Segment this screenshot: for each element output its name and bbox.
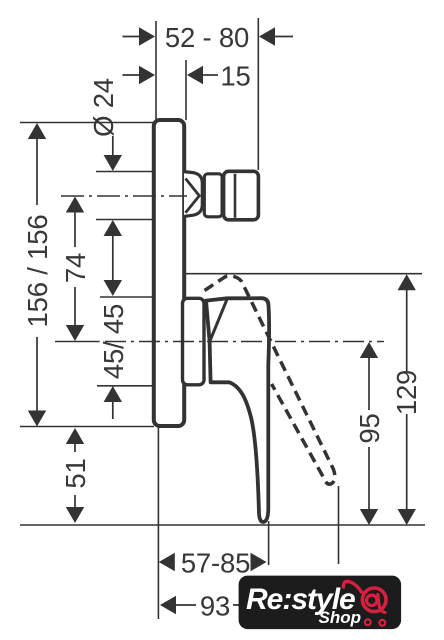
svg-text:Shop: Shop xyxy=(319,608,362,627)
dashed lever rotated position xyxy=(205,276,335,484)
dimension 95 xyxy=(354,342,385,525)
Re:style Shop logo xyxy=(239,576,402,630)
dimension Ø24 xyxy=(88,78,122,280)
cart wheel right xyxy=(379,620,385,626)
svg-text:52 - 80: 52 - 80 xyxy=(165,22,249,53)
@ outer ring xyxy=(362,588,386,612)
svg-text:93: 93 xyxy=(200,591,230,622)
cart wheel left xyxy=(365,619,371,625)
svg-text:57-85: 57-85 xyxy=(181,548,250,579)
bottom reference line y525 xyxy=(20,524,425,526)
extension line plate bottom y426.5 xyxy=(20,426,154,428)
spigot collar xyxy=(204,174,222,217)
dimension 15 xyxy=(123,61,251,92)
dimension 57-85 xyxy=(159,548,267,579)
centerline spigot axis y196 xyxy=(61,195,187,197)
dimension 93 xyxy=(160,591,330,622)
dimension 52-80 top xyxy=(123,22,294,53)
svg-text:129: 129 xyxy=(391,370,422,415)
extension line plate top y122.5 xyxy=(20,122,153,124)
centerline valve axis y341 xyxy=(55,341,100,343)
dimension 45/45 xyxy=(98,280,129,419)
spigot cone chevron xyxy=(186,179,200,213)
extension line nut bottom y219.5 xyxy=(96,219,153,221)
svg-text:Ø 24: Ø 24 xyxy=(88,78,119,137)
dimension 74 xyxy=(60,197,91,342)
@ inner a xyxy=(367,595,377,605)
svg-text:51: 51 xyxy=(60,458,91,488)
extension line x258 (nut face) xyxy=(257,18,259,170)
extension line lever tip x268.6 xyxy=(268,521,270,565)
extension line sleeve top y297 xyxy=(100,296,154,298)
dimension 156/156 xyxy=(22,123,53,427)
valve sleeve xyxy=(183,298,205,385)
svg-text:156 / 156: 156 / 156 xyxy=(22,215,53,328)
extension line x186 (plate front face) xyxy=(185,60,187,120)
svg-text:15: 15 xyxy=(220,61,250,92)
extension line nut top y171.5 xyxy=(96,171,153,173)
spigot nut xyxy=(224,171,259,220)
cart handle xyxy=(343,581,361,592)
handle face edge line xyxy=(210,299,228,342)
handle lever (rest position) xyxy=(206,298,269,522)
extension line left vertical x156 (wall face) xyxy=(155,21,157,120)
extension line bottom-left x158.4 xyxy=(157,427,159,619)
spigot funnel xyxy=(184,172,202,217)
extension line dashed tip x338.5 xyxy=(338,486,340,564)
dimension 129 xyxy=(391,274,422,525)
extension line dashed-lever apex y273.7 xyxy=(185,273,423,275)
extension line sleeve bottom y385.8 xyxy=(97,385,154,387)
dimension 51 xyxy=(60,428,91,523)
svg-text:74: 74 xyxy=(60,253,91,283)
nut face line xyxy=(234,174,237,218)
svg-text:95: 95 xyxy=(354,413,385,443)
wall plate (escutcheon side view) xyxy=(154,120,184,426)
